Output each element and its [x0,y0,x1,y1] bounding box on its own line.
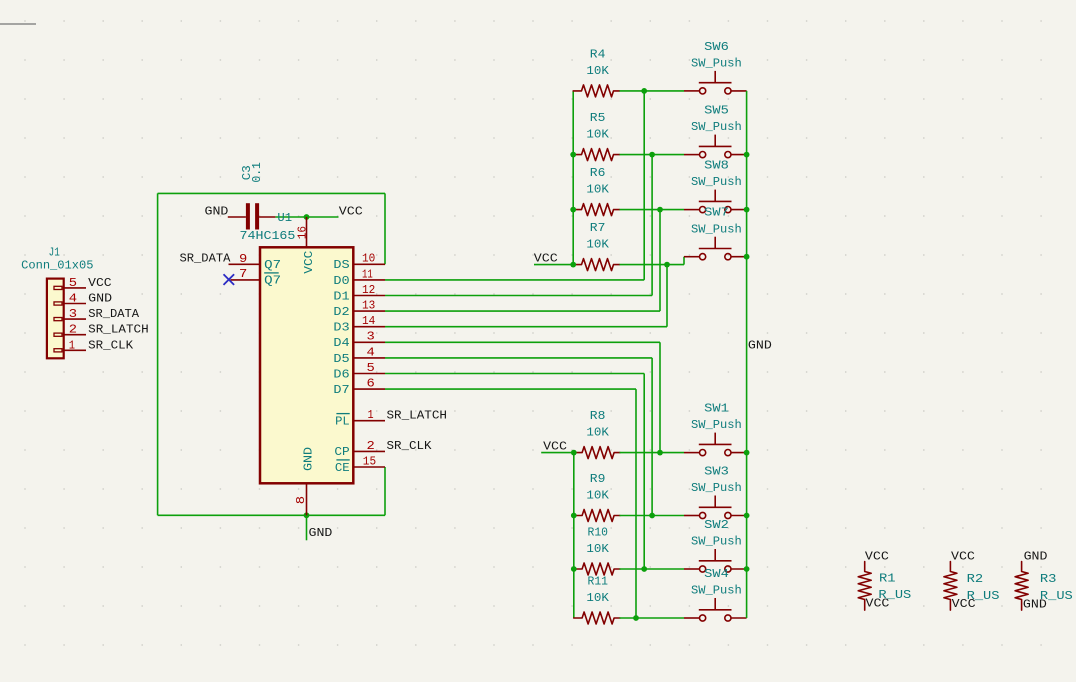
svg-text:U1: U1 [277,211,292,225]
svg-text:15: 15 [363,454,376,468]
svg-text:R_US: R_US [878,588,911,602]
svg-text:R11: R11 [588,575,609,589]
svg-text:GND: GND [302,447,316,471]
svg-text:R_US: R_US [967,589,1000,603]
svg-text:D2: D2 [333,305,349,319]
svg-text:2: 2 [69,323,77,337]
svg-text:J1: J1 [49,245,60,259]
svg-text:7: 7 [239,267,247,281]
svg-text:SR_LATCH: SR_LATCH [387,408,448,422]
svg-text:PL: PL [335,415,350,429]
svg-text:12: 12 [362,283,375,297]
svg-text:SW_Push: SW_Push [691,175,742,189]
svg-text:D0: D0 [333,274,349,288]
svg-text:VCC: VCC [302,251,316,274]
svg-text:R_US: R_US [1040,589,1073,603]
svg-text:SW_Push: SW_Push [691,418,742,432]
svg-text:VCC: VCC [534,252,558,266]
svg-text:16: 16 [296,226,310,239]
svg-text:SR_CLK: SR_CLK [88,338,134,352]
svg-text:3: 3 [367,330,375,344]
svg-text:SW6: SW6 [704,40,729,54]
svg-text:R10: R10 [588,526,609,540]
svg-text:6: 6 [367,377,375,391]
svg-text:Q7: Q7 [264,273,281,287]
svg-text:2: 2 [367,439,375,453]
svg-text:11: 11 [362,267,373,281]
svg-text:SW1: SW1 [704,402,729,416]
svg-text:D7: D7 [333,383,349,397]
svg-text:VCC: VCC [951,550,975,564]
svg-text:VCC: VCC [543,439,567,453]
svg-text:SW8: SW8 [704,159,729,173]
svg-text:14: 14 [362,314,375,328]
svg-text:1: 1 [368,408,374,422]
svg-text:DS: DS [333,258,349,272]
svg-text:SW3: SW3 [704,465,729,479]
svg-text:10: 10 [362,252,375,266]
svg-text:R4: R4 [590,48,606,62]
svg-text:SW_Push: SW_Push [691,481,742,495]
svg-text:5: 5 [367,361,375,375]
svg-text:SR_DATA: SR_DATA [88,307,140,321]
svg-text:SW7: SW7 [704,206,729,220]
svg-text:R8: R8 [590,409,606,423]
svg-text:R5: R5 [590,111,606,125]
svg-text:9: 9 [239,252,247,266]
svg-text:D1: D1 [333,289,349,303]
svg-text:SW_Push: SW_Push [691,535,742,549]
svg-text:4: 4 [367,345,375,359]
svg-text:SW4: SW4 [704,567,729,581]
svg-text:Q7: Q7 [264,258,281,272]
svg-text:R3: R3 [1040,572,1057,586]
svg-text:GND: GND [1024,550,1048,564]
svg-text:SR_CLK: SR_CLK [387,439,433,453]
svg-text:R7: R7 [590,221,606,235]
svg-text:74HC165: 74HC165 [240,229,296,243]
svg-text:10K: 10K [586,426,609,440]
svg-text:5: 5 [69,276,77,290]
svg-text:10K: 10K [586,183,609,197]
svg-text:4: 4 [69,292,77,306]
svg-text:3: 3 [69,307,77,321]
svg-text:GND: GND [748,338,772,352]
svg-text:D5: D5 [333,352,349,366]
svg-text:R6: R6 [590,166,606,180]
svg-text:GND: GND [88,292,112,306]
svg-text:Conn_01x05: Conn_01x05 [21,259,93,273]
svg-text:R9: R9 [590,472,606,486]
svg-text:D3: D3 [333,321,349,335]
svg-text:10K: 10K [586,489,609,503]
svg-text:R1: R1 [879,571,896,585]
svg-text:SR_DATA: SR_DATA [180,252,232,266]
svg-text:VCC: VCC [865,550,889,564]
svg-text:10K: 10K [586,238,609,252]
svg-text:10K: 10K [586,64,609,78]
svg-text:1: 1 [69,338,75,352]
svg-text:SW_Push: SW_Push [691,120,742,134]
svg-text:SW_Push: SW_Push [691,57,742,71]
svg-text:SR_LATCH: SR_LATCH [88,323,149,337]
svg-text:10K: 10K [586,542,609,556]
svg-text:VCC: VCC [339,204,363,218]
svg-text:GND: GND [309,526,333,540]
svg-text:SW2: SW2 [704,518,729,532]
svg-text:0.1: 0.1 [250,162,264,183]
svg-text:SW_Push: SW_Push [691,222,742,236]
svg-text:CE: CE [335,461,350,475]
svg-text:D4: D4 [333,336,349,350]
svg-text:GND: GND [205,204,229,218]
svg-text:SW5: SW5 [704,104,729,118]
svg-text:13: 13 [362,299,375,313]
svg-text:R2: R2 [967,572,984,586]
svg-text:CP: CP [334,445,349,459]
svg-text:D6: D6 [333,367,349,381]
svg-text:VCC: VCC [88,276,111,290]
svg-text:8: 8 [294,496,308,504]
svg-text:10K: 10K [586,128,609,142]
svg-text:10K: 10K [586,591,609,605]
svg-text:SW_Push: SW_Push [691,584,742,598]
